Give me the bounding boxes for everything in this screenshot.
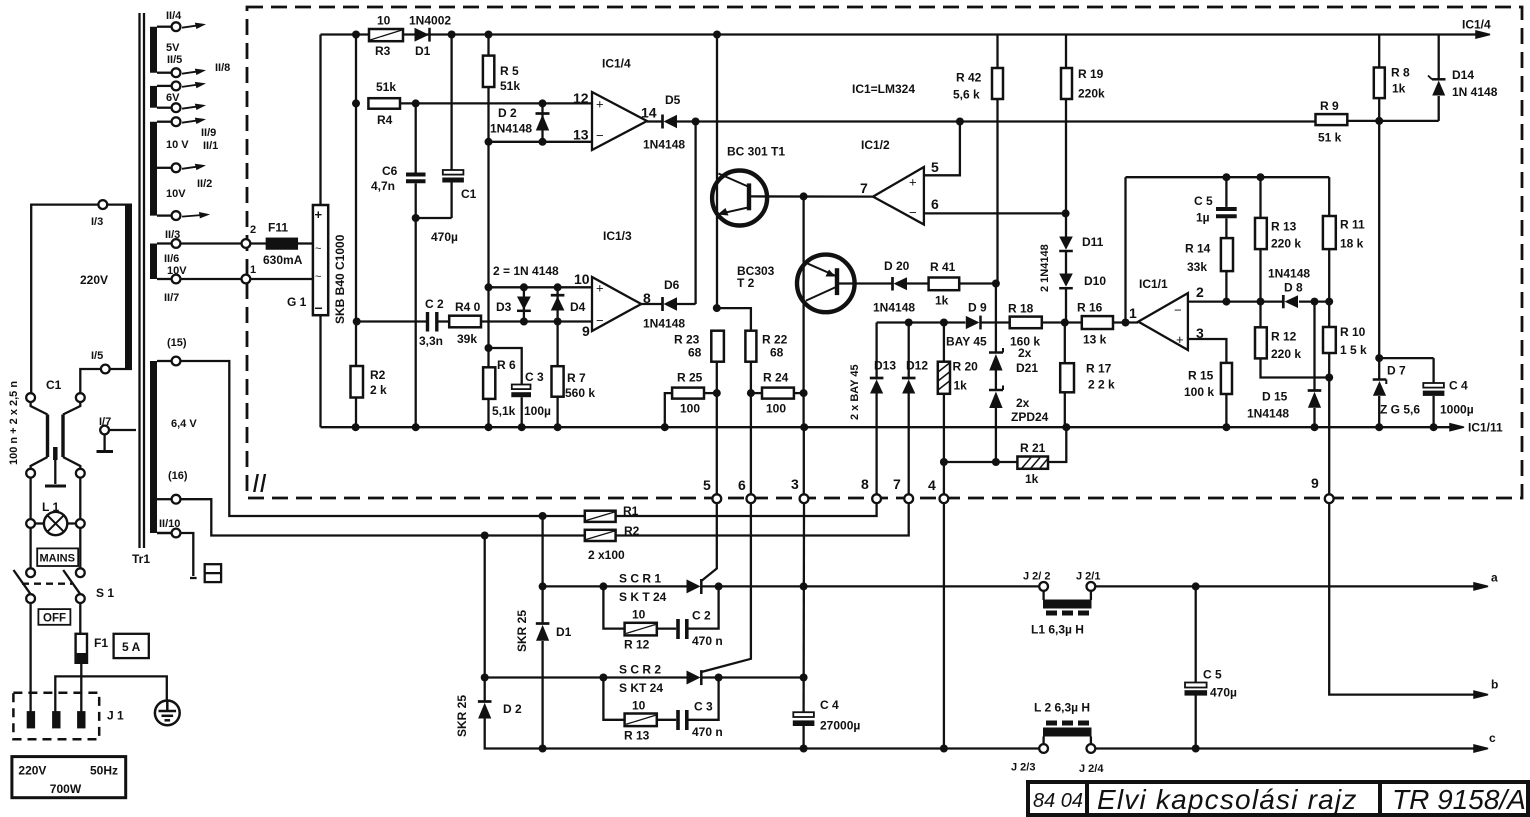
diode D12 (902, 377, 916, 380)
node tap 15 (172, 357, 181, 366)
svg-text:5: 5 (931, 159, 939, 175)
border pins 5 6 3 8 7 4 9 (712, 494, 1333, 503)
svg-text:Tr1: Tr1 (132, 552, 150, 566)
svg-text:2 = 1N 4148: 2 = 1N 4148 (493, 264, 559, 278)
resistor R19 (1061, 68, 1072, 99)
wire pin10 row (489, 286, 593, 288)
svg-text:J 2/3: J 2/3 (1011, 762, 1035, 774)
svg-text:G 1: G 1 (287, 295, 307, 309)
svg-text:2x: 2x (1018, 346, 1032, 360)
wire output c row right part (1095, 747, 1474, 749)
node II/6 (172, 239, 181, 248)
svg-text:6: 6 (738, 477, 746, 493)
capacitor C4 27000u (793, 712, 814, 717)
svg-text:10: 10 (632, 699, 646, 713)
wire SCR1 anode drop (541, 516, 543, 586)
svg-text:−: − (909, 205, 917, 220)
switch S1 blades (14, 570, 31, 594)
wire mains right leg from I/5 down to C1 (80, 369, 105, 393)
svg-text:D 7: D 7 (1387, 364, 1406, 378)
svg-text:D12: D12 (906, 359, 928, 373)
tap stubs to circles (157, 26, 172, 28)
svg-text:R 25: R 25 (677, 371, 703, 385)
resistor R24 (762, 388, 794, 399)
svg-text:51 k: 51 k (1318, 131, 1342, 145)
resistor R7 (552, 366, 564, 397)
svg-text:220 k: 220 k (1271, 347, 1301, 361)
wire G1 plus up to top rail (319, 35, 321, 206)
capacitor C5 470u (1185, 683, 1207, 688)
svg-text:C 4: C 4 (1449, 379, 1468, 393)
resistor R12 (1255, 327, 1267, 358)
svg-text:IC1/2: IC1/2 (861, 138, 890, 152)
node II/8 (172, 82, 181, 91)
svg-text:R 7: R 7 (567, 371, 586, 385)
wire II/6 to border pin 2 (181, 242, 242, 244)
svg-text:OFF: OFF (43, 613, 66, 625)
wire II/7 to border pin 1 (181, 278, 242, 280)
resistor R23 (711, 331, 724, 362)
dashed enclosure box II (247, 7, 1522, 498)
wire D20 to R41 (907, 282, 929, 284)
svg-text:J 2/1: J 2/1 (1076, 571, 1100, 583)
tap arrows (182, 24, 207, 217)
diode D11 (1059, 237, 1073, 250)
node II/7 (172, 275, 181, 284)
svg-text:R4 0: R4 0 (455, 300, 481, 314)
wire IC1/3 output to D6 (641, 303, 663, 305)
svg-text:1N4002: 1N4002 (409, 14, 451, 28)
svg-text:C 4: C 4 (820, 698, 839, 712)
svg-text:II/7: II/7 (164, 292, 179, 304)
wire R2(2k) bottom to bus (355, 398, 357, 428)
svg-text:L 2 6,3µ H: L 2 6,3µ H (1034, 701, 1090, 715)
svg-text:R 41: R 41 (930, 260, 956, 274)
mains rating box 220V 50Hz 700W (12, 757, 126, 798)
wire R4 feed vertical x356 (355, 35, 357, 367)
svg-text:R 14: R 14 (1185, 242, 1211, 256)
node 6V lower (172, 103, 181, 112)
svg-text:1N4148: 1N4148 (643, 317, 685, 331)
svg-text:R 22: R 22 (762, 333, 788, 347)
arrow output b (1474, 691, 1488, 698)
wire border pin3 down through rows to C4 (802, 503, 805, 712)
capacitor C1 centre electrode and ground (53, 447, 58, 460)
svg-text:27000µ: 27000µ (820, 719, 860, 733)
svg-text:100µ: 100µ (524, 404, 551, 418)
snubber capacitor C3 470n (676, 710, 680, 730)
wire SCR1 row (output a) (543, 585, 687, 587)
wire S1 left contact down to J1 pin1 (29, 603, 31, 711)
resistor R22 (745, 331, 756, 362)
earth symbol (155, 701, 180, 726)
svg-text:10: 10 (377, 14, 391, 28)
inductor L2 6,3uH (1043, 728, 1092, 737)
node tap 16 (172, 495, 181, 504)
svg-text:−: − (315, 300, 323, 316)
svg-text:F11: F11 (268, 221, 288, 235)
wire border pin4 down to minus row (943, 503, 945, 748)
wire I/3 to primary (107, 203, 132, 205)
svg-text:R 12: R 12 (1271, 330, 1297, 344)
wire IC1/2 pin6 row (924, 212, 1066, 214)
wire emitter node to R22 (717, 308, 751, 331)
title block frame (1028, 782, 1528, 815)
svg-text:470 n: 470 n (692, 725, 723, 739)
wire C6 bottom to C1 bottom (416, 217, 452, 219)
svg-text:R 18: R 18 (1008, 302, 1034, 316)
diode D6 (661, 297, 664, 311)
transistor T1 BC301 (712, 171, 767, 226)
diode D14 (1432, 78, 1446, 81)
svg-text:+: + (596, 97, 604, 112)
wire R6 bottom to bus (487, 399, 489, 427)
wire I/7 screen tap (109, 429, 136, 431)
svg-text:1N4148: 1N4148 (643, 138, 685, 152)
op-amp IC1/4 (592, 92, 647, 150)
node II/5 (172, 68, 181, 77)
diode D4 (551, 294, 565, 297)
svg-text:2 k: 2 k (370, 383, 387, 397)
resistor R11 (1323, 216, 1336, 249)
svg-text:470µ: 470µ (1210, 686, 1237, 700)
svg-text:c: c (1489, 731, 1496, 745)
resistor R5 (483, 56, 494, 87)
wire lamp row down to switch contacts (29, 528, 31, 568)
svg-text:D 2: D 2 (503, 702, 522, 716)
svg-text:100: 100 (680, 402, 700, 416)
svg-text:a: a (1491, 571, 1498, 585)
svg-text:3: 3 (1196, 325, 1204, 341)
node I/5 tap circle (101, 365, 110, 374)
svg-text:D21: D21 (1016, 361, 1038, 375)
resistor R9 (1316, 114, 1348, 125)
wire R9 to R8/D14 (1347, 120, 1438, 122)
wire C4 legs (1432, 358, 1434, 383)
wire F1 to junction and J1 pin3 (80, 663, 82, 712)
resistor R20 (fusible, hatched) (938, 362, 950, 394)
node I/3 tap circle (98, 200, 107, 209)
wire pin12 row (400, 102, 592, 104)
svg-text:R 17: R 17 (1086, 362, 1112, 376)
svg-text:+: + (596, 281, 604, 296)
svg-text:ZPD24: ZPD24 (1011, 410, 1049, 424)
resistor R2 (2k) (351, 366, 364, 398)
svg-text:II/6: II/6 (164, 253, 179, 265)
diode D9 (966, 316, 980, 329)
svg-text:J 1: J 1 (107, 709, 124, 723)
resistor R1 (shunt 100) (585, 511, 616, 522)
snubber capacitor C2 470n (676, 619, 680, 639)
svg-text:1µ: 1µ (1196, 211, 1210, 225)
svg-text:9: 9 (1311, 475, 1319, 491)
snubber resistor R12 (10) (625, 623, 657, 636)
svg-text:Elvi kapcsolási rajz: Elvi kapcsolási rajz (1097, 784, 1358, 815)
wire lamp row horizontals (35, 522, 44, 524)
svg-text:C1: C1 (461, 187, 477, 201)
svg-text:BAY 45: BAY 45 (946, 335, 987, 349)
svg-text:R2: R2 (370, 368, 386, 382)
wire input row to IC1/1 (877, 321, 966, 323)
svg-text:~: ~ (315, 271, 321, 283)
svg-text:Z G 5,6: Z G 5,6 (1380, 403, 1420, 417)
MAINS label box (37, 548, 78, 566)
node II/9 II/1 (172, 117, 181, 126)
svg-text:2 1N4148: 2 1N4148 (1039, 244, 1051, 292)
svg-text:D11: D11 (1082, 235, 1104, 249)
svg-text:C1: C1 (46, 378, 62, 392)
svg-text:MAINS: MAINS (40, 553, 75, 565)
svg-text:−: − (596, 128, 604, 143)
node C1 terminals (26, 393, 35, 402)
transformer core lines (138, 13, 140, 548)
wire zener chain (995, 284, 997, 354)
svg-text:C 2: C 2 (692, 609, 711, 623)
svg-text:220 k: 220 k (1271, 237, 1301, 251)
primary winding bar 220V (125, 205, 132, 369)
transistor T2 BC303 (797, 255, 855, 313)
5A rating box (114, 634, 149, 658)
svg-text:7: 7 (893, 476, 901, 492)
svg-text:S C R 2: S C R 2 (619, 663, 661, 677)
svg-text:R 20: R 20 (953, 360, 979, 374)
diode D2 (536, 112, 550, 115)
junction dots middle area (661, 118, 1071, 467)
resistor R2 (shunt 100) (585, 530, 616, 541)
svg-text:470 n: 470 n (692, 634, 723, 648)
svg-text:51k: 51k (376, 80, 396, 94)
wire D6 to OR node (677, 303, 696, 305)
node J2/1 (1087, 582, 1096, 591)
wire C1 bottom circles down to lamp row (29, 478, 31, 519)
svg-text:R3: R3 (375, 44, 391, 58)
svg-text:220V: 220V (80, 273, 108, 287)
svg-text:84 04: 84 04 (1033, 790, 1083, 812)
wire SCR2 snubber loop (603, 678, 624, 720)
wire D7 legs (1378, 358, 1380, 379)
svg-text:470µ: 470µ (431, 230, 458, 244)
wire R5 leg and pin13 row (487, 35, 489, 56)
resistor R14 (1221, 238, 1233, 271)
svg-text:~: ~ (315, 243, 321, 255)
wire D12 leg to pin 7 (908, 323, 910, 380)
svg-text:39k: 39k (457, 332, 477, 346)
wire D11-D10 chain (1065, 252, 1067, 274)
svg-text:+: + (909, 175, 917, 190)
op-amp IC1/1 (1138, 293, 1188, 350)
resistor R41 (929, 278, 960, 291)
svg-text:R 21: R 21 (1020, 441, 1046, 455)
wire D15 leg (1313, 302, 1315, 390)
zener diodes 2x D21 ZPD24 (989, 351, 1003, 354)
wire D3 leg (523, 287, 525, 321)
wire SCR2 row (485, 676, 687, 678)
wire II/10 to left and chassis (157, 532, 172, 534)
wire SCR2 gate to pin 6 (701, 503, 751, 672)
wire R8 leg (1378, 35, 1380, 68)
svg-text:D 8: D 8 (1284, 281, 1303, 295)
svg-text:1N4148: 1N4148 (1268, 267, 1310, 281)
wire R11 legs (1328, 177, 1330, 216)
wire D2 leg (541, 103, 543, 141)
svg-text:33k: 33k (1187, 260, 1207, 274)
OFF label box (38, 609, 70, 625)
svg-text:R 19: R 19 (1078, 67, 1104, 81)
wire IC1/4 output to D5 (647, 120, 663, 122)
wire C5/R14 chain (1225, 177, 1227, 207)
svg-text:1: 1 (250, 264, 256, 276)
wire C6 leg (415, 103, 417, 172)
wire R23 to border pin 5 (716, 362, 718, 495)
svg-text:5: 5 (703, 477, 711, 493)
svg-text:IC1/1: IC1/1 (1139, 277, 1168, 291)
svg-text:R 6: R 6 (497, 358, 516, 372)
svg-text:IC1/11: IC1/11 (1468, 421, 1503, 435)
svg-text:R1: R1 (623, 504, 639, 518)
svg-text:(16): (16) (168, 470, 188, 482)
connector J1 (dashed box with 3 pins) (13, 693, 99, 740)
wire C1 plates to bottom circles (31, 457, 48, 469)
svg-text:D6: D6 (664, 278, 680, 292)
wire C5 legs (1195, 586, 1197, 682)
resistor R15 (1221, 363, 1232, 394)
svg-text:+: + (1176, 332, 1184, 347)
resistor R3 (select) (369, 29, 403, 41)
svg-text:9: 9 (582, 323, 590, 339)
svg-text:R 42: R 42 (956, 71, 982, 85)
svg-text:J 2/4: J 2/4 (1079, 763, 1104, 775)
diode D15 (1308, 389, 1322, 392)
svg-text:6V: 6V (166, 92, 180, 104)
wire R42 leg (996, 35, 998, 69)
wire S1 right contact down to fuse F1 (79, 603, 81, 634)
diode D10 (1059, 274, 1073, 287)
resistor R25 (672, 388, 704, 399)
wire T1 collector chord (716, 35, 718, 309)
svg-text:SKB B40 C1000: SKB B40 C1000 (333, 234, 347, 324)
svg-text:D 9: D 9 (968, 301, 987, 315)
wire pin2 row (1188, 300, 1285, 302)
diode D1 1N4002 (415, 28, 430, 42)
svg-text:IC1/4: IC1/4 (602, 57, 631, 71)
svg-text:7: 7 (860, 180, 868, 196)
wire C1 top-left circle to plates (31, 402, 48, 415)
svg-text:T 2: T 2 (737, 276, 755, 290)
tap circles (172, 22, 181, 537)
resistor R16 (1082, 316, 1113, 329)
svg-text:II: II (252, 468, 266, 498)
svg-text:1k: 1k (935, 294, 949, 308)
wire D14 leg (1438, 35, 1440, 80)
wire diode D2 leg (484, 678, 486, 702)
arrow output c (1474, 745, 1488, 752)
svg-text:C 3: C 3 (525, 370, 544, 384)
svg-text:IC1/3: IC1/3 (603, 229, 632, 243)
wire R25 to R23 leg (704, 392, 717, 394)
op-amp IC1/3 (592, 277, 641, 331)
svg-text:3,3n: 3,3n (419, 334, 443, 348)
svg-text:1 5 k: 1 5 k (1340, 343, 1367, 357)
wire positive supply rail (321, 33, 1477, 35)
svg-text:D4: D4 (570, 300, 586, 314)
svg-text:S K T 24: S K T 24 (619, 590, 667, 604)
wire R19 leg (1065, 35, 1067, 69)
wire C1 top-right circle to plates (63, 402, 80, 415)
capacitor C2 (3,3n) (426, 312, 429, 332)
capacitor C4 1000u (1423, 383, 1444, 388)
diode D3 (517, 297, 531, 310)
svg-text:D 15: D 15 (1262, 390, 1288, 404)
svg-text:1000µ: 1000µ (1440, 403, 1474, 417)
node border pin 2 (242, 239, 251, 248)
op-amp IC1/2 (873, 167, 924, 225)
inductor L1 6,3uH (1043, 600, 1092, 609)
node switch S1 contacts (26, 568, 35, 577)
node lamp row terminals (26, 519, 35, 528)
svg-text:12: 12 (573, 90, 589, 106)
secondary winding bar 10V (G1 supply) (150, 244, 157, 280)
capacitor C5 1u (1216, 207, 1237, 211)
svg-text:R 16: R 16 (1077, 301, 1103, 315)
svg-text:R 9: R 9 (1320, 99, 1339, 113)
resistor R42 (992, 68, 1003, 99)
svg-text:1: 1 (1129, 305, 1137, 321)
chassis symbol at II/10 (190, 564, 221, 582)
svg-text:D3: D3 (496, 300, 512, 314)
svg-text:1k: 1k (954, 379, 968, 393)
svg-text:1k: 1k (1392, 82, 1406, 96)
svg-text:D 2: D 2 (498, 106, 517, 120)
diode D8 (1282, 295, 1285, 308)
svg-text:R 10: R 10 (1340, 325, 1366, 339)
svg-text:J 2/ 2: J 2/ 2 (1023, 571, 1051, 583)
resistor R10 (1323, 327, 1336, 353)
node II/4 (172, 22, 181, 31)
resistor R8 (1374, 68, 1385, 99)
svg-text:10: 10 (632, 608, 646, 622)
wire F11 to G1 (297, 242, 313, 244)
thyristor SCR2 SKT24 (687, 671, 701, 685)
svg-text:13 k: 13 k (1083, 333, 1107, 347)
node J2/2 (1039, 582, 1048, 591)
resistor R18 (1010, 317, 1042, 329)
svg-text:C 3: C 3 (694, 700, 713, 714)
svg-text:IC1=LM324: IC1=LM324 (852, 82, 915, 96)
wire R17 legs (1064, 323, 1066, 364)
wire D5 to OR node (677, 120, 696, 122)
svg-text:R2: R2 (624, 524, 640, 538)
wire IC1/1 feedback top row (1126, 176, 1330, 178)
svg-text:10V: 10V (166, 188, 186, 200)
wire pin9 row with C2 gap (356, 320, 426, 322)
svg-text:100 k: 100 k (1184, 385, 1214, 399)
wire R12 legs (1259, 302, 1261, 328)
wire L2 stubs (1042, 737, 1044, 745)
svg-text:R 13: R 13 (1271, 220, 1297, 234)
wire G1 minus down to bus corner (319, 315, 321, 427)
svg-text:D10: D10 (1084, 274, 1106, 288)
secondary winding bar 6,4V (150, 361, 157, 533)
thyristor SCR1 SKT24 (687, 579, 701, 593)
wire pin3 row and R15 (1188, 339, 1227, 363)
lamp L1 (44, 512, 67, 535)
svg-text:S KT 24: S KT 24 (619, 681, 663, 695)
svg-text:L1 6,3µ H: L1 6,3µ H (1031, 623, 1084, 637)
svg-text:51k: 51k (500, 79, 520, 93)
svg-text:630mA: 630mA (263, 253, 303, 267)
svg-text:R 13: R 13 (624, 729, 650, 743)
wire D5/D6 OR vertical (694, 122, 696, 305)
